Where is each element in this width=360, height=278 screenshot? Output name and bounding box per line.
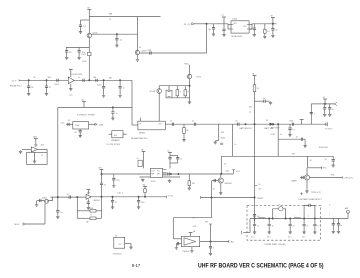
wire xyxy=(273,209,279,219)
svg-text:RSSI OUT: RSSI OUT xyxy=(319,147,329,149)
ground xyxy=(111,206,114,209)
ground xyxy=(219,192,222,195)
svg-text:C22: C22 xyxy=(61,122,64,124)
wire xyxy=(103,88,105,95)
wire xyxy=(189,65,191,75)
wire Q201 emitter down xyxy=(88,38,90,81)
wire xyxy=(176,86,178,90)
wire feedback xyxy=(101,197,103,219)
wire xyxy=(176,96,178,98)
wire ref line xyxy=(58,106,132,108)
svg-text:10: 10 xyxy=(104,184,106,186)
ground xyxy=(328,113,331,116)
wire xyxy=(87,203,89,206)
svg-text:180: 180 xyxy=(109,77,112,79)
wire xyxy=(266,100,270,102)
capacitor C220 xyxy=(96,79,97,82)
capacitor C235 xyxy=(288,128,291,129)
power xyxy=(87,9,91,11)
wire xyxy=(278,138,305,140)
capacitor C249 xyxy=(100,183,103,184)
svg-text:0.1u: 0.1u xyxy=(302,237,305,239)
wire xyxy=(177,155,179,157)
wire to Q202 xyxy=(136,17,138,51)
capacitor C211 xyxy=(222,29,225,30)
wire xyxy=(188,174,190,181)
capacitor C245 xyxy=(301,138,302,141)
wire xyxy=(289,219,291,225)
wire xyxy=(314,226,316,231)
svg-text:5_RX 4.7V: 5_RX 4.7V xyxy=(344,178,354,180)
power 5C xyxy=(323,98,327,100)
wire xyxy=(221,155,333,157)
junction xyxy=(119,79,121,81)
svg-text:LM2904: LM2904 xyxy=(183,251,190,253)
ground xyxy=(253,231,256,234)
wire xyxy=(116,40,118,44)
wire xyxy=(101,174,103,183)
svg-text:1n: 1n xyxy=(293,226,295,228)
power VCC PA xyxy=(222,16,226,18)
ground xyxy=(182,139,185,142)
power xyxy=(168,151,172,153)
wire Q202 emitter xyxy=(136,55,138,59)
wire xyxy=(189,98,191,101)
capacitor C250 xyxy=(112,179,115,180)
wire xyxy=(223,31,225,34)
cap trimmer xyxy=(138,160,142,166)
junction xyxy=(277,123,279,125)
wire xyxy=(112,107,114,111)
svg-text:OUT: OUT xyxy=(158,123,162,125)
ground xyxy=(27,93,30,96)
wire xyxy=(231,124,233,156)
wire xyxy=(170,154,178,156)
wire xyxy=(188,186,190,187)
svg-text:U205: U205 xyxy=(151,181,156,183)
wire xyxy=(175,244,177,247)
wire xyxy=(332,219,334,224)
capacitor C262 xyxy=(137,201,140,202)
svg-text:5.0M: 5.0M xyxy=(99,124,104,126)
wire xyxy=(310,104,312,124)
ground xyxy=(303,145,306,148)
svg-text:5.0 MHZ K TP REF: 5.0 MHZ K TP REF xyxy=(77,115,96,117)
wire xyxy=(332,161,334,164)
ground xyxy=(332,230,335,233)
svg-text:X1: X1 xyxy=(68,120,70,122)
box low pass power detect (dashed) xyxy=(247,206,321,241)
junction xyxy=(88,79,90,81)
wire stub C201 xyxy=(81,19,90,21)
wire xyxy=(80,26,82,30)
wire xyxy=(310,205,315,218)
svg-text:101: 101 xyxy=(116,180,119,182)
wire xyxy=(332,156,334,159)
wire xyxy=(183,124,185,127)
svg-text:1n: 1n xyxy=(307,226,309,228)
svg-text:1n: 1n xyxy=(180,159,182,161)
wire xyxy=(22,148,31,150)
ground xyxy=(129,246,132,249)
junction xyxy=(101,173,103,175)
capacitor C260 xyxy=(87,202,90,203)
svg-text:REF: REF xyxy=(151,174,154,176)
wire xyxy=(308,167,322,169)
capacitor C222 xyxy=(119,87,122,88)
wire xyxy=(57,212,59,216)
svg-text:C2: C2 xyxy=(109,19,111,21)
wire xyxy=(34,152,36,160)
junction xyxy=(285,218,287,220)
wire xyxy=(125,243,131,245)
wire xyxy=(218,124,220,140)
wire xyxy=(303,226,305,231)
junction xyxy=(268,218,270,220)
capacitor C246 xyxy=(332,160,335,161)
svg-text:IN.L08: IN.L08 xyxy=(150,91,156,93)
svg-text:OUT: OUT xyxy=(243,26,247,28)
wire xyxy=(79,132,81,135)
wire xyxy=(301,120,303,125)
wire xyxy=(138,197,140,201)
wire xyxy=(183,133,185,138)
wire xyxy=(304,139,306,144)
wire xyxy=(268,226,270,231)
transistor Q202 xyxy=(135,50,139,54)
svg-text:R26: R26 xyxy=(290,120,293,122)
wire xyxy=(249,219,251,233)
wire RX line xyxy=(19,79,132,81)
wire VCC1 to Q201 collector xyxy=(88,10,90,34)
ground xyxy=(19,150,22,153)
junction xyxy=(289,218,291,220)
xtal Z201 xyxy=(166,90,172,98)
capacitor C237 xyxy=(323,108,326,109)
svg-text:1n: 1n xyxy=(170,120,172,122)
svg-text:R52: R52 xyxy=(292,154,295,156)
wire xyxy=(78,48,80,51)
wire xyxy=(191,247,193,250)
wire xyxy=(113,180,115,185)
svg-text:12: 12 xyxy=(250,29,252,31)
capacitor C254 xyxy=(220,143,223,144)
wire xyxy=(289,226,291,231)
svg-text:5(R): 5(R) xyxy=(33,137,37,139)
ground xyxy=(188,101,191,104)
wire xyxy=(168,86,170,91)
junction xyxy=(211,197,213,199)
svg-text:PLL: PLL xyxy=(157,171,160,173)
wire xyxy=(253,29,255,33)
svg-text:453: 453 xyxy=(41,144,44,146)
svg-text:U3 MC1350: U3 MC1350 xyxy=(72,74,84,76)
wire xyxy=(338,219,340,224)
op-amp U206A xyxy=(86,194,91,199)
wire xyxy=(49,197,53,200)
junction xyxy=(272,123,274,125)
connector arrow xyxy=(334,102,337,105)
svg-text:5.0M: 5.0M xyxy=(75,125,79,127)
wire xyxy=(46,87,48,92)
svg-text:R245: R245 xyxy=(221,137,225,139)
ground xyxy=(136,58,139,61)
filter Z202 xyxy=(112,131,123,138)
svg-text:1u: 1u xyxy=(60,212,62,214)
ground xyxy=(289,231,292,234)
wire xyxy=(329,109,331,113)
capacitor C234 xyxy=(292,123,293,126)
ground xyxy=(35,203,38,206)
power VCC2 xyxy=(271,17,275,19)
wire xyxy=(289,124,291,128)
wire xyxy=(138,202,140,206)
wire xyxy=(169,163,171,168)
node MOD in xyxy=(23,223,26,225)
wire xyxy=(232,170,234,174)
wire xyxy=(227,24,229,29)
coil humps xyxy=(258,217,265,218)
ground xyxy=(313,231,316,234)
capacitor C268 xyxy=(253,215,256,216)
capacitor C201 xyxy=(79,25,82,26)
wire IF rail xyxy=(165,123,327,125)
resistor R230 xyxy=(253,85,256,92)
svg-text:10: 10 xyxy=(67,194,69,196)
wire xyxy=(249,24,252,26)
junction xyxy=(103,79,105,81)
svg-text:BATT/SW VOL: BATT/SW VOL xyxy=(240,127,253,130)
svg-text:0.1u: 0.1u xyxy=(251,237,254,239)
wire xyxy=(35,139,37,145)
wire xyxy=(112,202,114,206)
svg-text:1n: 1n xyxy=(280,134,282,136)
wire base row xyxy=(66,47,89,49)
svg-text:D204: D204 xyxy=(42,197,47,199)
wire xyxy=(311,103,334,105)
junction xyxy=(254,123,256,125)
svg-text:1n: 1n xyxy=(192,120,194,122)
wire to U202 xyxy=(207,23,229,25)
wire loop line xyxy=(102,173,234,175)
svg-text:CFU455 E: CFU455 E xyxy=(113,253,123,255)
IC U204 mixer xyxy=(138,121,165,130)
power xyxy=(300,119,304,121)
svg-text:DET: DET xyxy=(157,174,160,176)
resistor R223 xyxy=(184,90,187,96)
capacitor C258 xyxy=(40,199,41,202)
wire xyxy=(46,80,48,86)
wire xyxy=(307,156,309,168)
svg-text:MOD: MOD xyxy=(15,224,20,226)
ground xyxy=(332,164,335,167)
ground xyxy=(214,141,217,144)
svg-text:R58: R58 xyxy=(331,174,334,176)
ground xyxy=(190,249,193,252)
wire xyxy=(283,209,286,219)
wire xyxy=(96,210,102,212)
wire xyxy=(264,33,266,35)
wire xyxy=(228,24,231,26)
capacitor CF5 xyxy=(313,224,316,225)
junction xyxy=(101,196,103,198)
ground xyxy=(102,94,105,97)
wire TCXO out xyxy=(89,123,95,125)
resistor R222 xyxy=(176,90,179,96)
svg-text:470: 470 xyxy=(221,132,224,134)
ground xyxy=(45,93,48,96)
capacitor C215 xyxy=(271,29,274,30)
transistor Q206 xyxy=(218,178,223,183)
wire xyxy=(70,84,72,88)
ground xyxy=(56,216,59,219)
ground xyxy=(79,135,82,138)
IC U207 xyxy=(182,236,200,246)
power 5B xyxy=(253,75,257,77)
wire Q201 collector xyxy=(92,33,138,35)
wire xyxy=(169,152,171,155)
capacitor C228 xyxy=(56,211,59,212)
capacitor C261 xyxy=(111,201,114,202)
ground xyxy=(79,31,82,34)
wire xyxy=(215,140,218,142)
wire to mixer xyxy=(158,93,160,121)
wire RF_OP to PA xyxy=(194,23,206,25)
svg-text:L: L xyxy=(329,214,330,216)
wire xyxy=(44,203,46,224)
wire xyxy=(272,30,274,34)
capacitor C205 xyxy=(78,51,81,52)
wire xyxy=(112,197,114,201)
svg-text:1.0u: 1.0u xyxy=(69,95,73,97)
wire xyxy=(303,219,305,225)
svg-text:1n: 1n xyxy=(317,226,319,228)
svg-text:L: L xyxy=(295,215,296,217)
wire xyxy=(38,148,47,150)
svg-text:1n: 1n xyxy=(257,226,259,228)
svg-text:180: 180 xyxy=(226,171,229,173)
wire xyxy=(332,225,334,230)
wire xyxy=(36,201,38,204)
capacitor C223 xyxy=(68,123,69,126)
svg-text:UHF RF BOARD VER C SCHEMATIC (: UHF RF BOARD VER C SCHEMATIC (PAGE 4 OF … xyxy=(198,263,324,270)
wire xyxy=(101,170,103,175)
svg-text:0.1u: 0.1u xyxy=(288,237,291,239)
wire audio out xyxy=(91,196,166,198)
wire pin row xyxy=(140,176,181,178)
capacitor C213 xyxy=(253,28,256,29)
wire xyxy=(66,52,68,56)
wire LPF line xyxy=(250,218,348,220)
wire xyxy=(314,219,316,225)
svg-text:1n: 1n xyxy=(234,144,236,146)
svg-text:1n: 1n xyxy=(236,120,238,122)
ground xyxy=(112,184,115,187)
wire xyxy=(272,18,274,29)
svg-text:1n: 1n xyxy=(263,98,265,100)
wire xyxy=(264,24,266,30)
svg-text:LM2904: LM2904 xyxy=(93,200,100,202)
svg-text:TP201 4.7V: TP201 4.7V xyxy=(311,192,322,194)
junction xyxy=(138,196,140,198)
wire xyxy=(173,217,211,219)
svg-text:4p: 4p xyxy=(209,29,211,31)
wire xyxy=(80,20,82,25)
wire xyxy=(254,219,256,225)
crystal Y201 xyxy=(88,52,91,55)
wire xyxy=(289,129,291,133)
capacitor C218 xyxy=(45,86,48,87)
wire APC line xyxy=(201,197,255,199)
wire xyxy=(306,180,308,190)
capacitor xyxy=(302,176,303,179)
wire xyxy=(220,156,222,174)
svg-text:DIGITAL INSET VOLUED: DIGITAL INSET VOLUED xyxy=(265,243,287,246)
ground xyxy=(69,88,72,91)
wire audio line xyxy=(50,196,86,198)
transistor Q204 xyxy=(187,74,191,78)
svg-text:L: L xyxy=(260,215,261,217)
svg-text:1u: 1u xyxy=(116,113,118,115)
wire xyxy=(300,177,304,179)
svg-text:RXC: RXC xyxy=(323,168,328,170)
junction xyxy=(324,103,326,105)
svg-text:5W: 5W xyxy=(205,222,208,224)
wire xyxy=(83,102,85,108)
svg-text:100: 100 xyxy=(48,77,51,79)
wire xyxy=(78,52,80,56)
wire xyxy=(132,124,138,126)
junction xyxy=(112,106,114,108)
resistor R224 xyxy=(183,128,186,134)
ground xyxy=(65,56,68,59)
wire left bus xyxy=(57,107,59,210)
wire xyxy=(35,145,37,148)
capacitor C224 xyxy=(79,131,82,132)
wire PLL bus xyxy=(254,92,256,221)
wire xyxy=(277,124,279,156)
capacitor C217 xyxy=(57,79,58,82)
junction xyxy=(254,197,256,199)
wire xyxy=(109,133,112,135)
wire xyxy=(206,24,208,53)
junction xyxy=(210,241,212,243)
wire xyxy=(177,159,179,163)
ground xyxy=(209,252,212,255)
ground xyxy=(137,206,140,209)
capacitor C230 xyxy=(172,123,173,126)
svg-text:1p: 1p xyxy=(275,30,277,32)
junction xyxy=(272,23,274,25)
svg-text:BFR540: BFR540 xyxy=(225,183,232,185)
wire xyxy=(213,24,215,28)
op-amp U204A xyxy=(31,147,37,152)
wire xyxy=(324,104,326,108)
svg-text:TX APC: TX APC xyxy=(257,197,264,200)
connector TO PG 2 xyxy=(326,122,328,126)
wire xyxy=(66,123,73,125)
junction xyxy=(57,196,59,198)
wire xyxy=(101,185,103,197)
wire xyxy=(79,129,81,130)
wire xyxy=(255,100,264,102)
wire xyxy=(306,168,308,175)
wire xyxy=(87,199,89,202)
wire xyxy=(170,162,178,164)
ground xyxy=(175,246,178,249)
wire xyxy=(254,226,256,231)
svg-text:4.7: 4.7 xyxy=(325,159,328,161)
